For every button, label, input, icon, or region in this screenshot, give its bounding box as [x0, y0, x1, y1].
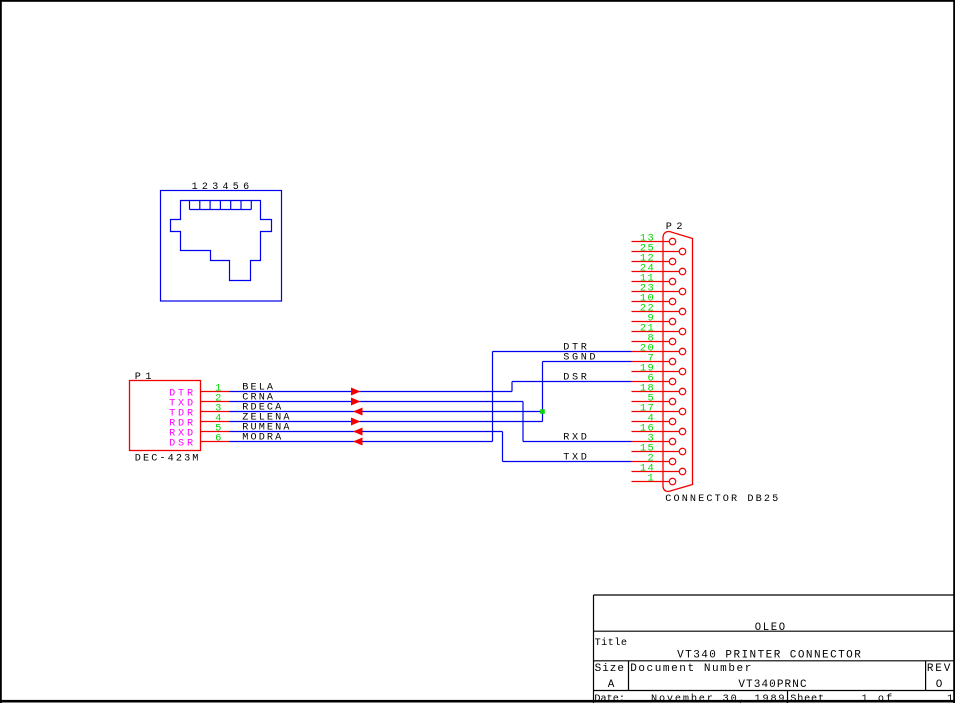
P1 pin 6 stub — [201, 441, 230, 443]
P2 pin 22 circle — [679, 308, 686, 315]
net label DTR — [563, 343, 589, 354]
P2 pin number 10 — [640, 293, 655, 305]
P2 pin 16 stub — [632, 431, 680, 433]
P2 pin 15 circle — [679, 448, 686, 455]
title block company name OLEO — [755, 622, 787, 634]
connector P2 DB25 body outline — [663, 231, 693, 491]
P2 pin 12 stub — [632, 261, 670, 263]
title block frame — [594, 595, 955, 703]
P2 pin number 8 — [648, 333, 656, 345]
wire net RXD horizontal to P2 pin 3 — [523, 441, 632, 443]
wire net DTR horizontal to P2 pin 20 — [493, 351, 632, 353]
signal direction arrow pin 5 (left) — [353, 428, 363, 436]
title block sheet label — [790, 693, 825, 703]
P1 pin 2 name TXD — [169, 399, 196, 410]
title block label Title — [595, 637, 628, 649]
P1 pin 5 name RXD — [169, 429, 196, 440]
P2 pin 4 circle — [669, 418, 676, 425]
P2 pin 17 stub — [632, 411, 680, 413]
signal direction arrow pin 3 (left) — [353, 408, 363, 416]
P2 pin 3 stub — [632, 441, 670, 443]
P1 pin 2 stub — [201, 401, 230, 403]
svg-text:TXD: TXD — [563, 453, 589, 464]
P2 pin 10 circle — [669, 298, 676, 305]
svg-text:O: O — [936, 679, 943, 691]
P1 pin number 3 — [215, 403, 221, 415]
wire net DSR horizontal to P2 pin 6 — [512, 381, 632, 383]
wire BELA vertical riser to DSR net — [511, 382, 513, 392]
P2 pin 23 circle — [679, 288, 686, 295]
P2 pin 9 stub — [632, 321, 670, 323]
svg-text:CONNECTOR DB25: CONNECTOR DB25 — [665, 494, 780, 505]
P1 pin 3 stub — [201, 411, 230, 413]
P2 pin number 6 — [648, 373, 656, 385]
net label TXD — [563, 453, 589, 464]
connector P1 value label DEC-423M — [135, 454, 201, 465]
svg-text:2: 2 — [202, 182, 208, 193]
P2 pin 24 circle — [679, 268, 686, 275]
title block sheet 1 of — [862, 693, 895, 703]
wire name label RDECA — [242, 403, 283, 414]
P2 pin number 21 — [640, 323, 655, 335]
P2 pin number 5 — [648, 393, 656, 405]
P2 pin number 18 — [640, 383, 655, 395]
P2 pin number 12 — [640, 253, 655, 265]
svg-text:A: A — [608, 679, 615, 691]
signal direction arrow pin 4 (right) — [351, 418, 361, 426]
P2 pin number 7 — [648, 353, 656, 365]
P2 pin 5 stub — [632, 401, 670, 403]
P2 pin number 20 — [640, 343, 655, 355]
title block document number VT340PRNC — [738, 679, 807, 691]
wire CRNA horizontal from P1 pin 2 — [230, 401, 524, 403]
P2 pin number 17 — [640, 403, 655, 415]
P2 pin 23 stub — [632, 291, 680, 293]
P2 pin 18 circle — [679, 388, 686, 395]
P2 pin 7 stub — [632, 361, 670, 363]
net label DSR — [563, 373, 589, 384]
title block label Document Number — [630, 663, 753, 675]
connector P1 body (DEC-423M) — [130, 381, 201, 451]
wire MODRA horizontal from P1 pin 6 — [230, 441, 493, 443]
svg-text:P1: P1 — [135, 372, 156, 383]
P2 pin 7 circle — [669, 358, 676, 365]
wire net SGND horizontal to P2 pin 7 — [543, 361, 632, 363]
P2 pin 11 circle — [669, 278, 676, 285]
P2 pin 16 circle — [679, 428, 686, 435]
wire name label CRNA — [242, 393, 275, 404]
wire RDECA horizontal from P1 pin 3 — [230, 411, 543, 413]
P2 pin 19 stub — [632, 371, 680, 373]
svg-text:RXD: RXD — [563, 433, 589, 444]
title block label REV — [927, 663, 952, 675]
wire MODRA vertical riser to DTR net — [492, 352, 494, 442]
P2 pin 24 stub — [632, 271, 680, 273]
svg-text:Document Number: Document Number — [630, 663, 753, 675]
P2 pin 19 circle — [679, 368, 686, 375]
svg-text:1: 1 — [947, 694, 953, 703]
P2 pin 22 stub — [632, 311, 680, 313]
P2 pin number 25 — [640, 243, 655, 255]
P1 pin number 6 — [215, 433, 221, 445]
P2 pin 2 circle — [669, 458, 676, 465]
P2 pin 6 circle — [669, 378, 676, 385]
svg-text:Date:: Date: — [594, 694, 625, 703]
P1 pin number 2 — [215, 393, 221, 405]
P2 pin number 9 — [648, 313, 656, 325]
P2 pin 1 stub — [632, 481, 670, 483]
P1 pin 5 stub — [201, 431, 230, 433]
wire BELA horizontal from P1 pin 1 — [230, 391, 513, 393]
signal direction arrow pin 2 (right) — [351, 398, 361, 406]
P2 pin 14 stub — [632, 471, 680, 473]
svg-text:SGND: SGND — [563, 353, 598, 364]
signal direction arrow pin 6 (left) — [353, 438, 363, 446]
wire CRNA vertical drop to RXD net — [522, 402, 524, 442]
P2 pin 20 circle — [679, 348, 686, 355]
P2 pin 8 circle — [669, 338, 676, 345]
P2 pin number 23 — [640, 283, 655, 295]
svg-text:1: 1 — [648, 473, 656, 485]
svg-text:DSR: DSR — [169, 439, 196, 450]
svg-text:Sheet: Sheet — [790, 693, 825, 703]
P2 pin 3 circle — [669, 438, 676, 445]
P1 pin 6 name DSR — [169, 439, 196, 450]
svg-text:OLEO: OLEO — [755, 622, 787, 634]
svg-text:VT340 PRINTER CONNECTOR: VT340 PRINTER CONNECTOR — [677, 649, 862, 661]
svg-text:6: 6 — [215, 433, 221, 445]
title block date value November 30, 1989 — [651, 693, 786, 703]
net label SGND — [563, 353, 598, 364]
P2 pin 21 circle — [679, 328, 686, 335]
P2 pin 4 stub — [632, 421, 670, 423]
connector P1 reference label — [135, 372, 156, 383]
P2 pin number 24 — [640, 263, 655, 275]
MMJ jack contact comb (6 pin slots) — [190, 201, 252, 210]
P2 pin 12 circle — [669, 258, 676, 265]
MMJ jack pin number label 123456 — [192, 182, 250, 193]
P2 pin number 1 — [648, 473, 656, 485]
P2 pin number 22 — [640, 303, 655, 315]
P2 pin number 11 — [640, 273, 655, 285]
P2 pin 13 circle — [669, 238, 676, 245]
P2 pin 6 stub — [632, 381, 670, 383]
title block label Size — [595, 663, 625, 675]
P2 pin 10 stub — [632, 301, 670, 303]
connector J1 MMJ face view outer box — [161, 191, 282, 302]
svg-text:5: 5 — [233, 182, 239, 193]
P2 pin 1 circle — [669, 478, 676, 485]
P2 pin 5 circle — [669, 398, 676, 405]
svg-text:REV: REV — [927, 663, 952, 675]
connector P2 value label CONNECTOR DB25 — [665, 494, 780, 505]
P2 pin 25 stub — [632, 251, 680, 253]
MMJ jack body outline — [171, 201, 272, 281]
svg-text:DEC-423M: DEC-423M — [135, 454, 201, 465]
signal direction arrow pin 1 (right) — [351, 388, 361, 396]
title block title VT340 PRINTER CONNECTOR — [677, 649, 862, 661]
P2 pin 15 stub — [632, 451, 680, 453]
P2 pin number 19 — [640, 363, 655, 375]
svg-text:6: 6 — [243, 182, 249, 193]
svg-text:November 30, 1989: November 30, 1989 — [651, 693, 786, 703]
svg-text:DTR: DTR — [563, 343, 589, 354]
P1 pin number 4 — [215, 413, 221, 425]
P2 pin 11 stub — [632, 281, 670, 283]
wire RUMENA horizontal from P1 pin 5 — [230, 431, 503, 433]
svg-text:VT340PRNC: VT340PRNC — [738, 679, 807, 691]
P1 pin 4 name RDR — [169, 419, 196, 430]
wire SGND vertical (joins TDR and RDR) — [542, 362, 544, 422]
P2 pin number 16 — [640, 423, 655, 435]
wire net TXD horizontal to P2 pin 2 — [503, 461, 632, 463]
P1 pin 1 name DTR — [169, 389, 196, 400]
P2 pin number 15 — [640, 443, 655, 455]
svg-text:1 of: 1 of — [862, 693, 895, 703]
wire name label BELA — [242, 383, 275, 394]
P2 pin 8 stub — [632, 341, 670, 343]
P2 pin number 4 — [648, 413, 656, 425]
P2 pin number 2 — [648, 453, 656, 465]
svg-text:3: 3 — [212, 182, 218, 193]
P1 pin 1 stub — [201, 391, 230, 393]
P2 pin number 3 — [648, 433, 656, 445]
P2 pin 13 stub — [632, 241, 670, 243]
svg-text:DSR: DSR — [563, 373, 589, 384]
wire name label ZELENA — [242, 413, 291, 424]
svg-text:Size: Size — [595, 663, 625, 675]
P2 pin 2 stub — [632, 461, 670, 463]
P1 pin 3 name TDR — [169, 409, 196, 420]
P1 pin number 1 — [215, 383, 221, 395]
connector P2 reference label — [666, 222, 687, 233]
svg-text:Title: Title — [595, 637, 628, 649]
P2 pin number 14 — [640, 463, 655, 475]
title block date label — [594, 694, 625, 703]
title block sheet total 1 — [947, 694, 953, 703]
title block size value A — [608, 679, 615, 691]
title block rev value O — [936, 679, 943, 691]
wire RUMENA vertical drop to TXD net — [502, 432, 504, 462]
P2 pin 20 stub — [632, 351, 680, 353]
P2 pin 25 circle — [679, 248, 686, 255]
svg-text:1: 1 — [192, 182, 198, 193]
P1 pin number 5 — [215, 423, 221, 435]
wire name label RUMENA — [242, 423, 291, 434]
junction dot TDR/SGND — [540, 409, 545, 414]
P2 pin 9 circle — [669, 318, 676, 325]
P2 pin 18 stub — [632, 391, 680, 393]
P2 pin number 13 — [640, 233, 655, 245]
P2 pin 21 stub — [632, 331, 680, 333]
wire ZELENA horizontal from P1 pin 4 — [230, 421, 543, 423]
net label RXD — [563, 433, 589, 444]
svg-text:4: 4 — [222, 182, 228, 193]
P1 pin 4 stub — [201, 421, 230, 423]
wire name label MODRA — [242, 433, 283, 444]
P2 pin 17 circle — [679, 408, 686, 415]
P2 pin 14 circle — [679, 468, 686, 475]
